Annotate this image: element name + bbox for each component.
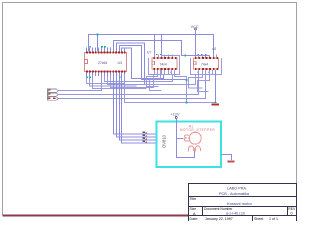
svg-text:Document Number: Document Number (204, 207, 233, 211)
junction node C (186, 79, 188, 81)
title block (189, 184, 297, 224)
svg-text:U3: U3 (118, 61, 122, 65)
svg-text:MOTOR_STEPPER: MOTOR_STEPPER (180, 128, 215, 132)
svg-text:Title: Title (190, 197, 197, 201)
wire stem to motor terminal (177, 138, 184, 140)
VCC symbol (191, 25, 199, 30)
svg-text:Date:: Date: (190, 217, 199, 221)
stepper driver box DV810 (157, 122, 222, 168)
junction node D (186, 102, 188, 104)
connector J1 (48, 89, 59, 101)
driver pin labels (143, 131, 145, 142)
ground GND1 (212, 102, 219, 106)
svg-text:LABO PRA: LABO PRA (227, 187, 246, 191)
svg-text:0: 0 (291, 212, 293, 216)
wires U3 to stepper driver (114, 72, 158, 144)
motor M1 (184, 132, 201, 151)
ground GND2 (228, 161, 235, 163)
wire connector row1 (59, 76, 102, 91)
pin number marks U1/U2 (156, 54, 210, 73)
wire top bus U3 to U1/U2 (89, 35, 214, 85)
wire connector row3 (59, 75, 206, 99)
svg-text:27c64: 27c64 (98, 61, 107, 65)
wire brackets below U2 (189, 75, 210, 92)
wire U2 pin to ground (215, 70, 217, 103)
sheet bottom border (maroon) (3, 215, 189, 217)
wire connector row2 (59, 75, 199, 95)
svg-text:74x4: 74x4 (201, 62, 208, 66)
wire ring around U2 (191, 58, 222, 75)
wires below U3 (87, 72, 196, 89)
svg-text:1 of 1: 1 of 1 (269, 217, 278, 221)
svg-text:Size: Size (190, 207, 197, 211)
svg-text:REV: REV (288, 207, 296, 211)
IC U2 (194, 47, 219, 75)
svg-text:u2: u2 (213, 47, 217, 51)
svg-text:DV810: DV810 (162, 134, 167, 147)
wire VCC to U2 (195, 30, 197, 58)
+12V power symbol (171, 113, 180, 119)
svg-text:+12V: +12V (171, 113, 180, 117)
svg-text:74x4: 74x4 (160, 62, 167, 66)
wire ground run (125, 72, 216, 103)
junction node A (97, 34, 99, 36)
junction node B (184, 55, 186, 57)
motor labels (180, 125, 215, 132)
wire ring around U1 (149, 56, 180, 75)
svg-text:a-z-l-4b.r.sh: a-z-l-4b.r.sh (226, 212, 245, 216)
wire +12V into driver and common return (177, 119, 195, 158)
svg-text:U?: U? (147, 51, 151, 55)
svg-text:PCB - Automatika: PCB - Automatika (219, 192, 250, 196)
svg-text:Koracni motor: Koracni motor (227, 201, 253, 206)
IC U3 (85, 46, 127, 78)
IC U1 (147, 51, 177, 75)
wire brackets below U1 (147, 70, 187, 103)
svg-text:January 22, 1997: January 22, 1997 (205, 217, 233, 221)
svg-text:Sheet: Sheet (254, 217, 263, 221)
